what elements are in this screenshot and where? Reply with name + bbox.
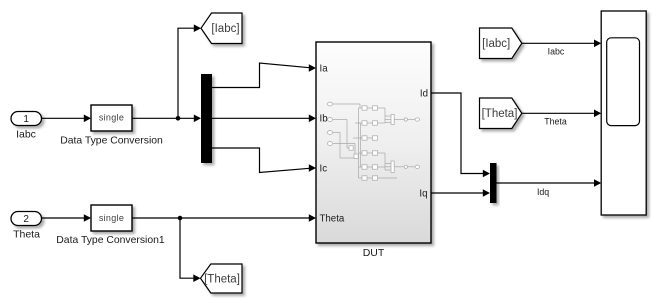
svg-text:Data Type Conversion1: Data Type Conversion1 <box>56 235 165 246</box>
svg-text:1: 1 <box>23 114 29 125</box>
DUT port label Id <box>420 88 428 99</box>
wire: DUT Iq to mux <box>431 189 490 197</box>
DUT port label Ic <box>320 163 328 174</box>
junction node on Theta wire <box>178 216 183 221</box>
wire: demux out1 to DUT Ia <box>212 63 316 88</box>
wire label Theta <box>544 117 567 127</box>
svg-text:Data Type Conversion: Data Type Conversion <box>60 135 163 146</box>
wire: demux out2 to DUT Ib <box>212 115 316 123</box>
svg-text:[Theta]: [Theta] <box>204 273 240 285</box>
wire: Data Type Conversion to demux <box>132 115 201 123</box>
junction node <box>176 116 181 121</box>
wire: mux to scope (Idq) <box>497 179 602 187</box>
wire: Data Type Conversion1 to DUT Theta <box>132 214 316 222</box>
svg-text:single: single <box>99 213 124 223</box>
svg-text:Theta: Theta <box>13 229 40 241</box>
wire label Idq <box>537 187 549 197</box>
wire: from [Iabc] to scope <box>522 40 601 48</box>
block Data Type Conversion (single) <box>60 105 163 146</box>
wire: from [Theta] to scope <box>522 110 601 118</box>
wire: inport1 to Data Type Conversion <box>42 115 92 123</box>
from tag [Iabc] <box>480 28 522 59</box>
DUT port label Ia <box>320 63 329 74</box>
svg-text:Ic: Ic <box>320 163 328 174</box>
svg-text:[Iabc]: [Iabc] <box>482 38 510 50</box>
subsystem DUT <box>316 42 431 259</box>
DUT port label Iq <box>419 188 427 199</box>
DUT internal preview drawing <box>327 102 419 180</box>
wire: inport2 to Data Type Conversion1 <box>42 214 92 222</box>
wire: junction up to Goto [Iabc] <box>178 24 201 118</box>
svg-text:[Iabc]: [Iabc] <box>211 23 239 35</box>
goto tag [Iabc] <box>201 13 242 44</box>
svg-text:DUT: DUT <box>363 247 385 259</box>
mux <box>490 163 497 203</box>
svg-text:Iabc: Iabc <box>548 47 565 57</box>
wire label Iabc <box>548 47 565 57</box>
svg-text:[Theta]: [Theta] <box>482 108 518 120</box>
demux <box>201 74 212 163</box>
DUT port label Ib <box>320 114 328 125</box>
scope block <box>601 11 646 215</box>
from tag [Theta] <box>480 98 522 129</box>
wire: demux out3 to DUT Ic <box>212 148 316 173</box>
svg-text:Ib: Ib <box>320 114 328 125</box>
svg-text:Iabc: Iabc <box>16 129 36 141</box>
svg-text:2: 2 <box>23 214 29 225</box>
inport 1 (Iabc) <box>11 112 42 141</box>
goto tag [Theta] <box>201 264 243 293</box>
block Data Type Conversion1 (single) <box>56 205 165 246</box>
wire: junction down to Goto [Theta] <box>180 218 201 282</box>
DUT port label Theta <box>320 214 345 225</box>
svg-text:Id: Id <box>420 88 428 99</box>
svg-text:Iq: Iq <box>419 188 427 199</box>
svg-text:single: single <box>99 113 124 123</box>
wire: DUT Id to mux <box>431 93 490 177</box>
svg-text:Theta: Theta <box>320 214 345 225</box>
svg-text:Theta: Theta <box>544 117 567 127</box>
svg-text:Ia: Ia <box>320 63 329 74</box>
inport 2 (Theta) <box>11 212 42 241</box>
svg-text:Idq: Idq <box>537 187 549 197</box>
